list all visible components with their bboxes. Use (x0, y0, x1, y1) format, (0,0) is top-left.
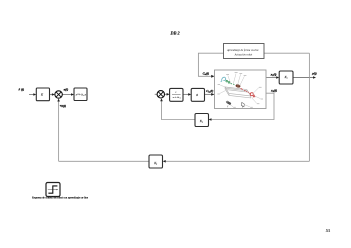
svg-text:DB 2: DB 2 (170, 31, 181, 36)
svg-text:1: 1 (175, 91, 176, 94)
svg-text:51: 51 (326, 228, 331, 233)
svg-text:s+k₁: s+k₁ (173, 96, 181, 99)
svg-text:K₃: K₃ (153, 161, 157, 165)
svg-text:K₁: K₁ (284, 75, 288, 79)
svg-text:Cm(t): Cm(t) (206, 89, 213, 94)
svg-text:Actuación robot: Actuación robot (234, 54, 253, 57)
svg-text:x1(t): x1(t) (270, 73, 277, 78)
svg-text:+k(t): +k(t) (60, 104, 66, 108)
svg-text:r̂ (t): r̂ (t) (18, 87, 24, 91)
svg-text:Aprendizaje de forma on-line: Aprendizaje de forma on-line (226, 49, 259, 52)
svg-text:Esquema de control del robot c: Esquema de control del robot con aprendi… (32, 196, 89, 199)
svg-text:Cb(t): Cb(t) (203, 72, 209, 77)
svg-text:K₂: K₂ (199, 119, 203, 123)
svg-text:x2(t): x2(t) (270, 89, 277, 94)
svg-text:s²+k₁s: s²+k₁s (76, 94, 87, 97)
svg-text:y(t): y(t) (311, 72, 317, 76)
svg-text:e(t): e(t) (64, 88, 69, 92)
